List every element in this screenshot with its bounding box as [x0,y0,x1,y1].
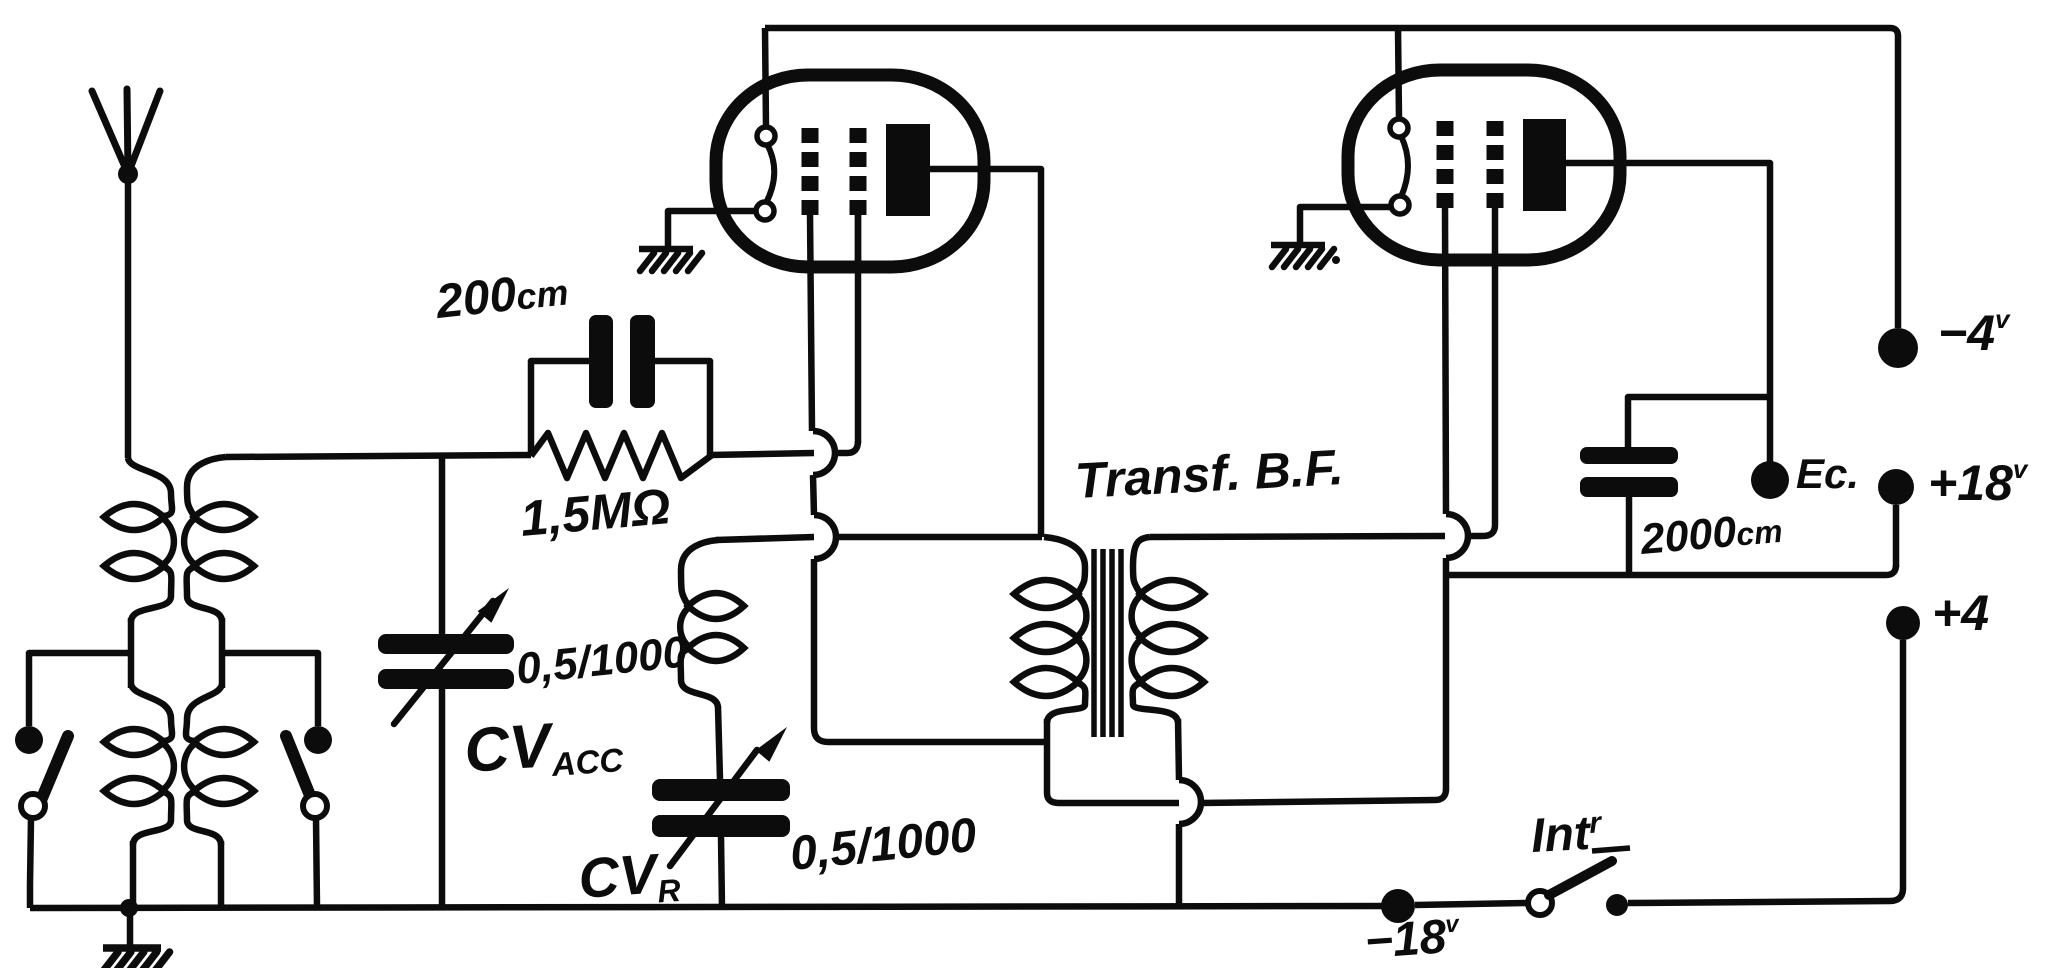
tube V2 grid g1 [1437,121,1454,208]
wire filament supply rail [765,28,1898,328]
wire +18 feed line [1446,505,1896,575]
tube V2 envelope [1348,70,1620,260]
variable capacitor CVacc bottom plate [378,669,514,689]
wire T2 bottom line continue [1201,789,1446,803]
coil L1a primary upper [104,458,174,622]
transformer T2 secondary [1132,537,1204,723]
switch Int contact dot [1606,894,1628,916]
wire V2 g1 down [1445,207,1468,790]
wire S1 to bus [30,818,31,908]
tube V2 filament [1401,136,1408,197]
wire primary bottom [130,841,137,908]
antenna [92,89,160,184]
wire CVR riser [718,707,720,779]
wire V1 filament to rail [765,28,766,127]
capacitor C1 200cm right plate [630,315,655,408]
ground V1 [639,249,702,271]
ground main [103,948,170,968]
tube V2 filament bottom pin [1391,196,1409,214]
capacitor C3 2000cm bottom plate [1580,477,1678,497]
terminal -4V [1878,328,1918,368]
switch S2 contact dot [304,726,332,754]
terminal -18V [1381,889,1415,923]
wire -18 to switch [1415,903,1528,905]
wire L2 line continue [836,534,1042,541]
wire secondary bottom [218,841,225,908]
wire V1 filament return [668,211,757,247]
wire CVacc to bus [439,689,446,908]
anode V1 [886,124,930,216]
coil L1d secondary lower [184,684,254,845]
transformer T2 primary [1014,537,1086,723]
terminal Ec [1751,461,1789,499]
coil L1b primary lower [104,684,174,845]
label -18V [1363,909,1463,968]
wire bus ground stem [127,908,134,947]
wire S2 to bus [316,818,317,908]
switch S2 pivot [303,794,327,818]
tube V2 grid g2 [1487,121,1504,208]
variable capacitor CVR top plate [652,779,790,801]
wire T2 secondary top line [1150,536,1445,537]
switch Int pivot [1528,891,1552,915]
label Int underline [1592,848,1630,851]
wire V1 g2 down [855,214,862,267]
node junction CVacc [439,455,446,634]
variable capacitor CVR arrow [670,727,787,866]
anode V2 [1523,119,1566,211]
tube V1 filament top pin [757,127,775,145]
svg-text:Ec.: Ec. [1796,450,1859,497]
tube V1 envelope [716,75,984,267]
wire CVR to bus [721,837,722,908]
label CVacc [462,706,625,789]
tube V2 filament top pin [1390,119,1408,137]
wire +4 to switch [1628,640,1903,903]
label 0,5/1000 CVacc [514,627,690,694]
label 2000cm [1638,504,1785,564]
terminal +18V [1878,469,1914,505]
wire anode branch to C3 [1628,397,1770,447]
wire V2 filament to rail [1398,28,1399,119]
wire primary mid jog [128,618,135,688]
tube V1 grid g1 [802,128,819,215]
wire ground bus [30,906,1398,908]
switch S1 lever [42,736,68,798]
label Transf BF [1074,439,1345,509]
tube V1 filament bottom pin [756,202,774,220]
label Int [1530,806,1605,863]
wire L2 top line [716,537,814,540]
variable capacitor CVacc top plate [378,634,514,654]
label 0,5/1000 CVr [788,809,980,881]
wire right tap branch [222,653,318,726]
switch Int lever [1549,861,1612,895]
wire left tap branch [29,653,131,726]
wire grid line to corner [836,441,858,453]
tube V1 filament [766,144,774,203]
variable capacitor CVacc arrow [394,588,509,724]
label +4 [1932,585,1989,641]
switch S1 pivot [21,794,45,818]
switch S2 lever [286,736,311,798]
wire V2 g2 down [1467,207,1495,536]
wire RC left leg [531,361,589,455]
tube V1 grid g2 [850,128,867,215]
coil L2 grid coil [680,540,744,708]
wire tuned-circuit top line [226,455,531,457]
wire V1 anode lead [930,169,1041,537]
node bus-ground junction [120,899,138,917]
wire grid2 riser [855,214,862,443]
capacitor C3 2000cm top plate [1580,447,1678,464]
label +18V [1928,454,2029,511]
label -4V [1938,304,2011,361]
wire T2 secondary bottom [1178,719,1201,908]
wire RC right leg [655,361,710,455]
label 200cm [433,262,571,329]
wire V2 anode lead [1566,163,1770,462]
wire C3 to +18 line [1626,497,1633,575]
coil L1c secondary upper [184,457,254,622]
label CVr [576,840,681,915]
wire grid line right [710,453,814,455]
resistor R1 1.5Mohm [531,433,712,478]
wire V2 filament return [1300,207,1392,243]
variable capacitor CVR bottom plate [652,815,790,837]
wire T2 primary bottom [1047,719,1179,803]
capacitor C1 200cm left plate [589,315,613,408]
terminal +4 [1886,606,1920,640]
wire secondary mid jog [219,618,226,688]
wire V1 g1 down [810,214,1047,742]
label 1,5Mohm [518,478,673,547]
switch S1 contact dot [15,726,43,754]
transformer T2 core [1094,549,1121,737]
svg-text:+4: +4 [1932,585,1989,641]
wire antenna lead-in [125,174,132,458]
label Ec [1796,450,1859,497]
ground V2 [1271,245,1340,267]
